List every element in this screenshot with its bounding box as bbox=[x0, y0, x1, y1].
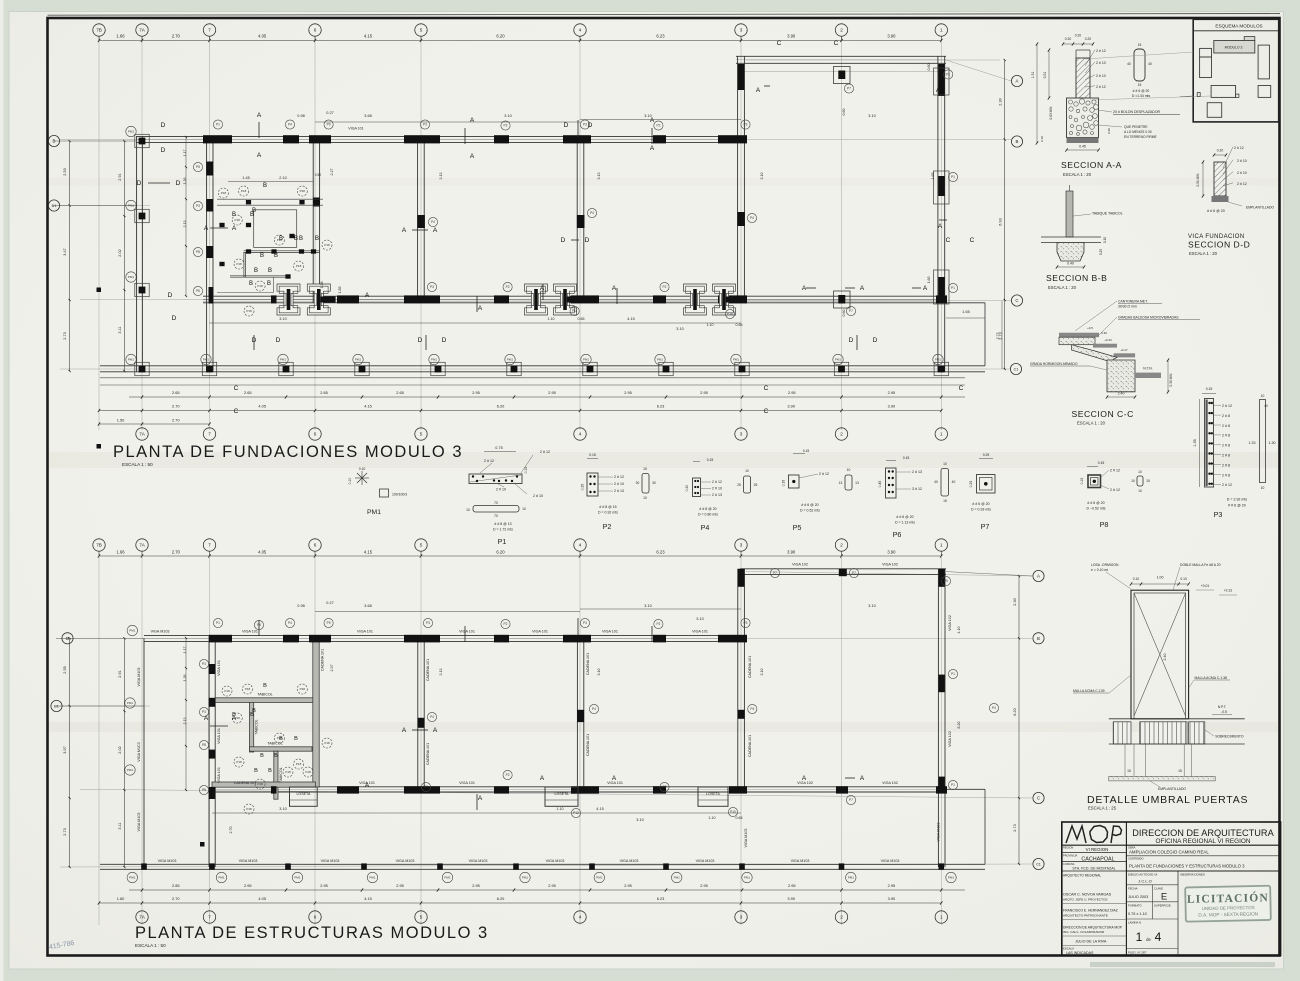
left dims structure plan bbox=[69, 638, 71, 867]
svg-text:2.95: 2.95 bbox=[548, 390, 556, 395]
svg-text:A: A bbox=[1016, 79, 1019, 84]
svg-text:C: C bbox=[970, 237, 975, 244]
svg-text:0.98: 0.98 bbox=[297, 114, 304, 118]
svg-text:DIRECCION DE ARQUITECTURA MOP: DIRECCION DE ARQUITECTURA MOP bbox=[1063, 926, 1123, 930]
svg-text:2 # 12: 2 # 12 bbox=[1096, 49, 1106, 53]
svg-text:P18: P18 bbox=[241, 189, 247, 193]
svg-text:3.10: 3.10 bbox=[868, 604, 875, 608]
svg-text:P3: P3 bbox=[744, 621, 748, 625]
svg-text:D: D bbox=[276, 337, 281, 344]
svg-text:2.95: 2.95 bbox=[624, 883, 632, 888]
svg-text:CADENA 101: CADENA 101 bbox=[426, 743, 430, 765]
svg-text:P4: P4 bbox=[288, 621, 292, 625]
structure walls bbox=[740, 568, 946, 570]
svg-text:PM1: PM1 bbox=[128, 130, 135, 134]
svg-text:PM1: PM1 bbox=[935, 358, 942, 362]
svg-text:2.30: 2.30 bbox=[1013, 598, 1017, 605]
svg-text:P4: P4 bbox=[590, 211, 594, 215]
svg-text:25: 25 bbox=[754, 483, 758, 487]
svg-text:2 # 12: 2 # 12 bbox=[614, 475, 624, 479]
svg-text:SUPERFICIE: SUPERFICIE bbox=[1154, 904, 1171, 908]
svg-text:VIGA 101: VIGA 101 bbox=[602, 630, 618, 634]
svg-text:3.68: 3.68 bbox=[364, 114, 371, 118]
svg-text:P18: P18 bbox=[296, 762, 302, 766]
top grid bubbles bbox=[93, 24, 105, 36]
svg-text:3.90: 3.90 bbox=[887, 550, 896, 555]
svg-text:VIGA M103: VIGA M103 bbox=[396, 859, 415, 863]
svg-text:2: 2 bbox=[840, 432, 843, 437]
svg-text:P18: P18 bbox=[300, 189, 306, 193]
svg-text:CADENA 101: CADENA 101 bbox=[586, 734, 590, 756]
svg-text:70: 70 bbox=[494, 514, 498, 518]
svg-text:2: 2 bbox=[840, 28, 843, 33]
svg-text:VIGA M103: VIGA M103 bbox=[744, 829, 748, 848]
svg-text:C1: C1 bbox=[1036, 862, 1041, 866]
svg-text:3.10: 3.10 bbox=[868, 114, 875, 118]
svg-text:0.10: 0.10 bbox=[1040, 136, 1044, 142]
svg-text:2 # 12: 2 # 12 bbox=[1096, 85, 1106, 89]
svg-text:P3: P3 bbox=[424, 785, 428, 789]
svg-text:# # 6 @ 20: # # 6 @ 20 bbox=[896, 515, 913, 519]
svg-text:B: B bbox=[315, 236, 319, 242]
svg-text:C: C bbox=[777, 40, 782, 47]
P labels row B bbox=[213, 120, 222, 129]
svg-text:VIGA M103: VIGA M103 bbox=[881, 859, 900, 863]
svg-text:2.95: 2.95 bbox=[472, 390, 480, 395]
svg-text:A: A bbox=[938, 223, 943, 230]
svg-text:B: B bbox=[232, 712, 236, 718]
svg-text:# # 8 @ 20: # # 8 @ 20 bbox=[699, 507, 716, 511]
svg-text:P2: P2 bbox=[656, 124, 660, 128]
svg-text:0.15: 0.15 bbox=[707, 458, 714, 462]
svg-text:VIGA 101: VIGA 101 bbox=[242, 630, 258, 634]
svg-text:P4: P4 bbox=[701, 523, 710, 532]
svg-text:0.65: 0.65 bbox=[578, 317, 585, 321]
svg-text:PM1: PM1 bbox=[127, 701, 134, 705]
svg-text:3.10: 3.10 bbox=[644, 604, 651, 608]
svg-text:CADENA 101: CADENA 101 bbox=[321, 649, 325, 671]
svg-text:CACHAPOAL: CACHAPOAL bbox=[1081, 856, 1114, 862]
right dim chain top plan bbox=[1004, 60, 1006, 369]
svg-text:0.20: 0.20 bbox=[1217, 149, 1224, 153]
svg-text:A: A bbox=[257, 152, 262, 159]
structure black blocks row B bbox=[209, 635, 232, 643]
svg-text:1.66: 1.66 bbox=[116, 34, 125, 39]
svg-text:2.73: 2.73 bbox=[996, 333, 1000, 340]
svg-text:P1: P1 bbox=[946, 73, 950, 77]
svg-text:2 # 12: 2 # 12 bbox=[1110, 469, 1120, 473]
svg-text:C: C bbox=[1037, 796, 1040, 801]
svg-text:C: C bbox=[764, 408, 769, 415]
svg-text:3.10: 3.10 bbox=[279, 317, 286, 321]
svg-text:SOBRECIMIENTO: SOBRECIMIENTO bbox=[1215, 735, 1244, 739]
svg-text:3.10: 3.10 bbox=[696, 617, 703, 621]
svg-text:OFICINA REGIONAL VI REG: OFICINA REGIONAL VI REGION bbox=[1156, 838, 1251, 845]
svg-text:0.10: 0.10 bbox=[359, 467, 366, 471]
blocks row C bbox=[271, 295, 277, 303]
svg-text:0.20: 0.20 bbox=[1075, 34, 1082, 38]
svg-text:ARQTO. JEFE U. PROYECTOS: ARQTO. JEFE U. PROYECTOS bbox=[1063, 898, 1107, 902]
svg-text:10: 10 bbox=[643, 496, 647, 500]
svg-text:A: A bbox=[365, 782, 370, 789]
svg-text:3 # 12: 3 # 12 bbox=[912, 487, 922, 491]
svg-text:# # 6 @ 20: # # 6 @ 20 bbox=[972, 502, 989, 506]
svg-text:AMPLIACION COLEGIO CAMINO REAL: AMPLIACION COLEGIO CAMINO REAL bbox=[1129, 849, 1209, 854]
svg-text:15: 15 bbox=[1178, 769, 1182, 773]
svg-text:VIGA 102: VIGA 102 bbox=[948, 615, 952, 631]
svg-text:6.20: 6.20 bbox=[496, 34, 505, 39]
svg-text:2 # 12: 2 # 12 bbox=[819, 472, 829, 476]
svg-text:PM1: PM1 bbox=[431, 358, 438, 362]
svg-text:D: D bbox=[442, 337, 447, 344]
svg-text:VIGA 102: VIGA 102 bbox=[882, 781, 898, 785]
svg-text:P7: P7 bbox=[852, 571, 856, 575]
svg-text:2 # 8: 2 # 8 bbox=[1222, 444, 1230, 448]
svg-text:2.13: 2.13 bbox=[183, 221, 187, 228]
svg-text:REGION: REGION bbox=[1063, 845, 1073, 849]
svg-text:3.90: 3.90 bbox=[888, 404, 896, 409]
svg-text:3.10: 3.10 bbox=[676, 327, 683, 331]
svg-text:10: 10 bbox=[1138, 489, 1142, 493]
svg-text:D: D bbox=[176, 180, 181, 187]
svg-text:MALLA ACMA C-139: MALLA ACMA C-139 bbox=[1073, 689, 1105, 693]
svg-text:1.10: 1.10 bbox=[557, 807, 564, 811]
svg-text:D = 0.92 mts: D = 0.92 mts bbox=[598, 511, 618, 515]
svg-text:0.60: 0.60 bbox=[842, 310, 846, 317]
svg-text:P18: P18 bbox=[257, 284, 263, 288]
bottom bubbles structure plan bbox=[136, 911, 148, 923]
svg-text:3.10: 3.10 bbox=[644, 114, 651, 118]
svg-text:D: D bbox=[172, 315, 177, 322]
svg-text:PM1: PM1 bbox=[128, 275, 135, 279]
svg-text:40: 40 bbox=[1127, 62, 1131, 66]
svg-text:B1: B1 bbox=[54, 704, 59, 708]
svg-text:0.20: 0.20 bbox=[1065, 37, 1072, 41]
svg-text:B: B bbox=[250, 712, 254, 718]
svg-text:FECHA: FECHA bbox=[1128, 887, 1138, 891]
svg-text:ESCALA 1 : 20: ESCALA 1 : 20 bbox=[1189, 251, 1218, 256]
svg-text:15: 15 bbox=[1127, 769, 1131, 773]
svg-text:D: D bbox=[161, 122, 166, 129]
svg-text:2.95: 2.95 bbox=[320, 883, 328, 888]
svg-text:ESCALA 1 : 50: ESCALA 1 : 50 bbox=[135, 943, 166, 948]
svg-text:VIGA M103: VIGA M103 bbox=[239, 859, 258, 863]
svg-text:D: D bbox=[873, 337, 878, 344]
svg-text:P18: P18 bbox=[246, 309, 252, 313]
svg-text:A: A bbox=[402, 227, 407, 234]
svg-text:1.33: 1.33 bbox=[1249, 441, 1256, 445]
svg-text:0.35: 0.35 bbox=[782, 480, 786, 487]
svg-text:VIGA 101: VIGA 101 bbox=[459, 781, 475, 785]
svg-text:A: A bbox=[936, 87, 941, 94]
svg-text:DIBUJO AUTOCAD 14: DIBUJO AUTOCAD 14 bbox=[1128, 873, 1158, 877]
svg-text:1.10: 1.10 bbox=[548, 317, 555, 321]
svg-text:15: 15 bbox=[1146, 479, 1150, 483]
svg-text:1.66: 1.66 bbox=[116, 550, 125, 555]
svg-text:2.95: 2.95 bbox=[396, 883, 404, 888]
svg-text:LAMINA N: LAMINA N bbox=[1128, 921, 1141, 925]
svg-text:A: A bbox=[540, 775, 545, 782]
svg-text:A: A bbox=[923, 285, 928, 292]
svg-text:+3.01: +3.01 bbox=[1201, 584, 1210, 588]
svg-text:0.27: 0.27 bbox=[326, 601, 333, 605]
svg-text:P9: P9 bbox=[327, 621, 331, 625]
svg-text:TABIQUE TABICOL: TABIQUE TABICOL bbox=[1092, 212, 1123, 216]
structure blocks row C bbox=[271, 786, 277, 793]
svg-text:2.95: 2.95 bbox=[548, 883, 556, 888]
svg-text:A: A bbox=[402, 727, 407, 734]
svg-text:PM1: PM1 bbox=[522, 876, 529, 880]
svg-text:C: C bbox=[234, 385, 239, 392]
interior dims bottom plan bbox=[315, 611, 580, 613]
svg-text:15: 15 bbox=[943, 499, 947, 503]
svg-text:STA. FCD. DE MOSTAZAL: STA. FCD. DE MOSTAZAL bbox=[1072, 867, 1115, 871]
svg-text:D = 1.72 mts: D = 1.72 mts bbox=[493, 528, 513, 532]
svg-text:2.30: 2.30 bbox=[999, 98, 1003, 105]
SECCION A-A bbox=[1063, 43, 1093, 45]
svg-text:40: 40 bbox=[952, 480, 956, 484]
svg-text:VIGA 102: VIGA 102 bbox=[882, 562, 898, 566]
svg-text:ARQUITECTO REGIONAL: ARQUITECTO REGIONAL bbox=[1063, 874, 1101, 878]
svg-text:2.10: 2.10 bbox=[279, 176, 286, 180]
P labels bottom row B bbox=[213, 618, 222, 627]
svg-text:13: 13 bbox=[839, 481, 843, 485]
svg-text:P1: P1 bbox=[951, 175, 955, 179]
svg-text:0.15: 0.15 bbox=[1098, 461, 1105, 465]
svg-text:ESCALA 1 : 20: ESCALA 1 : 20 bbox=[1048, 285, 1077, 290]
svg-text:ING. CALC. COLABORADOR: ING. CALC. COLABORADOR bbox=[1063, 930, 1105, 934]
svg-text:PM1: PM1 bbox=[129, 876, 136, 880]
svg-text:P18: P18 bbox=[236, 760, 242, 764]
svg-text:2.95: 2.95 bbox=[788, 883, 796, 888]
svg-text:1.38: 1.38 bbox=[320, 282, 324, 289]
detail P5 bbox=[793, 453, 805, 455]
svg-text:-0.5: -0.5 bbox=[1221, 710, 1227, 714]
svg-text:4.05: 4.05 bbox=[258, 404, 266, 409]
svg-text:5: 5 bbox=[420, 915, 423, 920]
svg-text:VIGA 102: VIGA 102 bbox=[792, 562, 808, 566]
svg-text:VIGA 101: VIGA 101 bbox=[532, 630, 548, 634]
svg-text:40: 40 bbox=[1148, 62, 1152, 66]
svg-text:15: 15 bbox=[643, 467, 647, 471]
svg-text:P18: P18 bbox=[236, 262, 242, 266]
PM1 circles bottom bbox=[127, 872, 137, 882]
svg-text:7: 7 bbox=[208, 28, 211, 33]
foundation black column blocks row B bbox=[203, 135, 232, 143]
svg-text:0.10: 0.10 bbox=[348, 478, 352, 485]
svg-text:B: B bbox=[260, 753, 264, 759]
svg-text:2 # 10: 2 # 10 bbox=[1237, 159, 1247, 163]
svg-text:4.15: 4.15 bbox=[627, 317, 634, 321]
svg-text:P18: P18 bbox=[324, 243, 330, 247]
blocks row A bbox=[738, 64, 745, 90]
svg-text:2.95: 2.95 bbox=[788, 390, 796, 395]
svg-text:VIGA M1C3: VIGA M1C3 bbox=[137, 742, 141, 761]
svg-text:VIGA M103: VIGA M103 bbox=[620, 859, 639, 863]
svg-text:2 # 12: 2 # 12 bbox=[1234, 146, 1244, 150]
svg-text:13: 13 bbox=[855, 481, 859, 485]
svg-text:0.35: 0.35 bbox=[581, 484, 585, 491]
svg-text:0.75: 0.75 bbox=[495, 446, 502, 450]
svg-text:2.65: 2.65 bbox=[172, 390, 180, 395]
footings left wall bbox=[135, 134, 149, 147]
svg-text:C1: C1 bbox=[1014, 367, 1019, 371]
svg-text:5: 5 bbox=[420, 432, 423, 437]
svg-text:TABICOL: TABICOL bbox=[257, 693, 273, 697]
svg-text:B: B bbox=[249, 281, 253, 287]
svg-text:10: 10 bbox=[1138, 470, 1142, 474]
svg-text:10: 10 bbox=[943, 462, 947, 466]
svg-text:P2: P2 bbox=[506, 773, 510, 777]
svg-text:CADENA 101: CADENA 101 bbox=[748, 735, 752, 757]
svg-text:2.02: 2.02 bbox=[118, 249, 122, 256]
svg-text:VIGA 101: VIGA 101 bbox=[357, 630, 373, 634]
svg-text:D: D bbox=[588, 122, 593, 129]
section marker lines bbox=[148, 182, 170, 184]
svg-text:B: B bbox=[254, 768, 258, 774]
svg-text:1.60: 1.60 bbox=[927, 277, 931, 284]
svg-text:+0.34: +0.34 bbox=[1104, 338, 1112, 342]
svg-text:TABICOL: TABICOL bbox=[267, 742, 283, 746]
svg-text:SECCION A-A: SECCION A-A bbox=[1061, 160, 1122, 170]
svg-text:P8: P8 bbox=[202, 743, 206, 747]
svg-text:ESCALA 1 : 50: ESCALA 1 : 50 bbox=[122, 462, 153, 467]
svg-text:5: 5 bbox=[420, 543, 423, 548]
svg-text:4: 4 bbox=[579, 432, 582, 437]
svg-text:E: E bbox=[1161, 892, 1167, 903]
svg-text:VI REGION: VI REGION bbox=[1086, 847, 1109, 852]
svg-text:PM1: PM1 bbox=[583, 358, 590, 362]
svg-text:B: B bbox=[268, 268, 272, 274]
svg-text:P8: P8 bbox=[1100, 520, 1109, 529]
svg-text:2.95: 2.95 bbox=[888, 883, 896, 888]
svg-text:P18: P18 bbox=[257, 782, 263, 786]
svg-text:LOSETA: LOSETA bbox=[555, 792, 570, 796]
bottom bubbles top plan bbox=[136, 428, 148, 440]
structure C1 dots bbox=[141, 863, 147, 869]
svg-text:3: 3 bbox=[740, 28, 743, 33]
svg-text:1.30: 1.30 bbox=[1269, 441, 1276, 445]
svg-text:LOSETA: LOSETA bbox=[706, 792, 721, 796]
svg-text:1.65: 1.65 bbox=[931, 173, 935, 180]
svg-text:0.60: 0.60 bbox=[842, 109, 846, 116]
svg-text:+0.17: +0.17 bbox=[1120, 348, 1128, 352]
svg-text:6.20: 6.20 bbox=[497, 404, 505, 409]
svg-text:2 # 10: 2 # 10 bbox=[1096, 61, 1106, 65]
svg-text:P18: P18 bbox=[235, 218, 241, 222]
svg-text:VIGA 102: VIGA 102 bbox=[948, 731, 952, 747]
svg-text:3: 3 bbox=[740, 543, 743, 548]
svg-text:3.47: 3.47 bbox=[63, 248, 67, 255]
svg-text:3.90: 3.90 bbox=[787, 550, 796, 555]
svg-text:0.25: 0.25 bbox=[1107, 128, 1111, 134]
svg-text:7B: 7B bbox=[96, 543, 102, 548]
svg-text:D: D bbox=[561, 237, 566, 244]
svg-text:6.23: 6.23 bbox=[657, 404, 665, 409]
svg-text:0.10: 0.10 bbox=[1180, 577, 1187, 581]
svg-text:JULIO DE LA RIVA: JULIO DE LA RIVA bbox=[1075, 940, 1107, 944]
svg-text:1.00: 1.00 bbox=[1157, 576, 1164, 580]
svg-text:P7: P7 bbox=[847, 87, 851, 91]
svg-text:e = 0.10 mt: e = 0.10 mt bbox=[1091, 568, 1108, 572]
svg-text:C: C bbox=[946, 237, 951, 244]
svg-text:A: A bbox=[478, 795, 483, 802]
svg-text:# # 8 @ 13: # # 8 @ 13 bbox=[494, 522, 511, 526]
svg-text:3: 3 bbox=[740, 915, 743, 920]
svg-text:0.98: 0.98 bbox=[297, 604, 304, 608]
svg-text:6.23: 6.23 bbox=[656, 550, 665, 555]
PM1 circles top plan C1 row bbox=[126, 354, 136, 364]
svg-text:B: B bbox=[260, 253, 264, 259]
svg-text:3.11: 3.11 bbox=[118, 822, 122, 829]
svg-text:3.13: 3.13 bbox=[439, 173, 443, 180]
svg-text:CANTONERA MET.: CANTONERA MET. bbox=[1118, 300, 1148, 304]
svg-text:A: A bbox=[650, 117, 655, 124]
svg-text:A: A bbox=[257, 112, 262, 119]
structure plan grid bubbles top bbox=[99, 555, 941, 557]
svg-text:2 # 12: 2 # 12 bbox=[540, 450, 550, 454]
svg-text:0.10: 0.10 bbox=[1103, 237, 1107, 243]
svg-text:2.27: 2.27 bbox=[330, 169, 334, 176]
svg-text:P10: P10 bbox=[730, 810, 736, 814]
svg-text:B: B bbox=[254, 268, 258, 274]
tabicol gray walls bay 7-6 bbox=[215, 698, 315, 703]
svg-text:# # 6 @ 20: # # 6 @ 20 bbox=[1133, 89, 1150, 93]
svg-text:0.50: 0.50 bbox=[315, 173, 322, 177]
svg-text:P3: P3 bbox=[583, 123, 587, 127]
svg-text:P2: P2 bbox=[656, 622, 660, 626]
svg-text:B: B bbox=[263, 183, 267, 189]
svg-text:B: B bbox=[1016, 139, 1019, 144]
svg-text:P3: P3 bbox=[1214, 510, 1223, 519]
svg-text:# # 6 @ 20: # # 6 @ 20 bbox=[1207, 209, 1225, 213]
svg-text:PM1: PM1 bbox=[596, 876, 603, 880]
svg-text:P7: P7 bbox=[849, 798, 853, 802]
svg-text:de: de bbox=[1146, 937, 1151, 942]
svg-text:P3: P3 bbox=[423, 123, 427, 127]
svg-text:6.20: 6.20 bbox=[1013, 708, 1017, 715]
detail PM1 bbox=[355, 477, 369, 479]
svg-text:ESCALA: ESCALA bbox=[1063, 947, 1074, 951]
svg-text:PLANTA DE ESTRUCTURAS MODUL: PLANTA DE ESTRUCTURAS MODULO 3 bbox=[135, 924, 489, 942]
svg-text:EMPLANTILLADO: EMPLANTILLADO bbox=[1246, 206, 1274, 210]
svg-text:A: A bbox=[470, 153, 475, 160]
svg-text:P8: P8 bbox=[196, 250, 200, 254]
svg-text:7: 7 bbox=[208, 915, 211, 920]
svg-text:P5: P5 bbox=[793, 523, 802, 532]
svg-text:2.02: 2.02 bbox=[118, 746, 122, 753]
svg-text:3.10: 3.10 bbox=[597, 669, 601, 676]
svg-text:2.65: 2.65 bbox=[244, 390, 252, 395]
svg-text:0.40: 0.40 bbox=[1067, 262, 1074, 266]
svg-text:4: 4 bbox=[579, 28, 582, 33]
svg-text:2 # 12: 2 # 12 bbox=[712, 480, 722, 484]
svg-text:2.95: 2.95 bbox=[888, 390, 896, 395]
svg-text:PM1: PM1 bbox=[848, 876, 855, 880]
svg-text:7A: 7A bbox=[139, 432, 146, 437]
svg-text:PM1: PM1 bbox=[835, 358, 842, 362]
svg-text:P4: P4 bbox=[431, 220, 435, 224]
svg-text:P3: P3 bbox=[196, 204, 200, 208]
svg-text:QUE PENETRE: QUE PENETRE bbox=[1124, 125, 1148, 129]
svg-text:2.55: 2.55 bbox=[63, 666, 67, 673]
svg-text:6.23: 6.23 bbox=[656, 34, 665, 39]
LOSETA boxes bbox=[290, 787, 318, 806]
svg-text:B: B bbox=[294, 736, 298, 742]
bottom dims of top plan bbox=[129, 396, 965, 398]
svg-text:C: C bbox=[764, 385, 769, 392]
svg-text:VIGA M103: VIGA M103 bbox=[321, 859, 340, 863]
